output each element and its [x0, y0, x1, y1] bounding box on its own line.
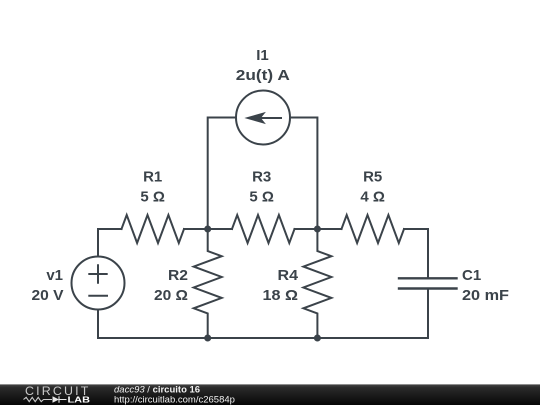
- wire node B to R5: [317, 228, 341, 230]
- resistor R5: [342, 215, 405, 243]
- wire node A up to I1 left terminal: [208, 118, 236, 230]
- resistor R1: [122, 215, 185, 243]
- wire C1 bottom to rail: [427, 290, 429, 338]
- node B junction dot: [314, 226, 321, 233]
- svg-text:R1: R1: [143, 169, 162, 186]
- I1 arrow shaft: [252, 117, 281, 119]
- CircuitLab logo resistor squiggle: [24, 397, 53, 401]
- v1 minus sign: [89, 295, 107, 297]
- wire R3 to node B: [295, 228, 318, 230]
- voltage source v1 body: [72, 257, 125, 310]
- bottom wire rail: [98, 337, 428, 339]
- capacitor C1 bottom plate: [399, 287, 457, 289]
- svg-text:LAB: LAB: [68, 396, 91, 405]
- svg-text:5 Ω: 5 Ω: [140, 189, 165, 206]
- junction dot bottom right: [314, 335, 321, 342]
- CircuitLab logo diode symbol: [53, 396, 60, 402]
- svg-text:R4: R4: [278, 267, 299, 284]
- wire v1 bottom to ground rail: [97, 310, 99, 339]
- svg-text:20 V: 20 V: [32, 287, 64, 304]
- svg-text:2u(t) A: 2u(t) A: [236, 67, 290, 84]
- wire I1 right terminal down to node B: [290, 118, 317, 230]
- junction dot bottom left: [204, 335, 211, 342]
- svg-text:I1: I1: [256, 47, 269, 64]
- v1 plus sign: [89, 265, 106, 283]
- wire node A to R3: [208, 228, 232, 230]
- wire v1 top to R1: [98, 229, 122, 257]
- svg-text:R3: R3: [252, 169, 271, 186]
- resistor R4: [303, 229, 331, 338]
- current source I1 body: [236, 91, 290, 145]
- resistor R2: [194, 229, 222, 338]
- footer bar: [0, 384, 540, 405]
- svg-text:20 Ω: 20 Ω: [154, 287, 188, 304]
- svg-text:18 Ω: 18 Ω: [263, 287, 299, 304]
- svg-text:C1: C1: [462, 267, 481, 284]
- svg-text:4 Ω: 4 Ω: [360, 189, 385, 206]
- svg-text:http://circuitlab.com/c26584p: http://circuitlab.com/c26584p: [114, 395, 235, 405]
- svg-text:R5: R5: [363, 169, 382, 186]
- svg-text:5 Ω: 5 Ω: [249, 189, 274, 206]
- node A junction dot: [204, 226, 211, 233]
- svg-text:v1: v1: [46, 267, 63, 284]
- svg-text:20 mF: 20 mF: [462, 287, 509, 304]
- wire R5 to C1 top: [404, 229, 428, 278]
- svg-text:R2: R2: [168, 267, 188, 284]
- resistor R3: [232, 215, 295, 243]
- wire R1 to node A: [184, 228, 208, 230]
- capacitor C1 top plate: [399, 277, 457, 279]
- I1 arrow head: [246, 113, 264, 123]
